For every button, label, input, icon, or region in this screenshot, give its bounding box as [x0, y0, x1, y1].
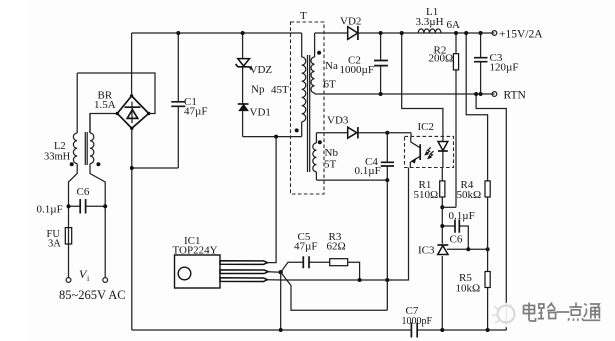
inductor L1: [418, 29, 441, 33]
wire +15V to R4 divider: [466, 33, 487, 181]
svg-text:VD3: VD3: [327, 115, 349, 127]
wire secondary top rail: [315, 32, 495, 34]
optocoupler IC2 dashed box: [405, 136, 454, 167]
resistor R5: [487, 249, 489, 330]
capacitor C5: [303, 256, 309, 268]
resistor R3: [330, 259, 348, 266]
svg-text:3A: 3A: [48, 239, 61, 250]
output terminal RTN: [492, 92, 497, 97]
node L2 dot left: [70, 162, 74, 166]
svg-text:0.1µF: 0.1µF: [355, 165, 381, 177]
node C6 right: [103, 204, 107, 208]
node Np polarity dot: [295, 128, 299, 132]
svg-text:L2: L2: [54, 141, 66, 152]
watermark logo: [492, 303, 517, 328]
svg-text:1.5A: 1.5A: [94, 99, 116, 111]
IC1 pin 2 control lead: [220, 270, 268, 274]
bridge rectifier BR: [116, 94, 151, 130]
svg-text:IC3: IC3: [418, 245, 435, 257]
capacitor C6 (feedback): [442, 226, 468, 249]
output terminal +15V: [492, 31, 497, 36]
opto light arrows: [425, 148, 431, 155]
resistor R2: [455, 33, 457, 207]
IC1 pin 3 source lead: [220, 278, 268, 282]
wire left vertical (bridge+ to top rail, bridge- to bottom rail): [131, 33, 133, 330]
node Nb polarity dot: [318, 140, 322, 144]
wire +15V to opto LED anode: [402, 33, 443, 136]
node control fan: [279, 270, 283, 274]
node source/C4/loop: [385, 278, 389, 282]
transformer core: [308, 55, 310, 172]
capacitor C4: [386, 133, 388, 180]
opto phototransistor: [411, 136, 420, 147]
svg-text:47µF: 47µF: [184, 106, 207, 118]
wire drain to primary: [268, 137, 277, 263]
svg-text:6A: 6A: [447, 19, 461, 31]
IC1 TOP224Y package: [175, 255, 221, 288]
svg-text:Nb: Nb: [325, 147, 339, 159]
node R3/source wire: [358, 278, 362, 282]
node C1 top: [176, 31, 180, 35]
node R5 bottom: [486, 328, 490, 332]
wire bottom rail secondary: [417, 329, 506, 331]
node C3 top: [479, 31, 483, 35]
wire bottom rail primary: [132, 329, 412, 331]
svg-text:VD2: VD2: [340, 16, 361, 28]
wire R2 bottom to node: [442, 206, 456, 208]
node C3 bottom: [479, 92, 483, 96]
node VDZ top: [241, 31, 245, 35]
node RTN loop: [474, 92, 478, 96]
AC terminal left: [66, 278, 71, 283]
node IC3 anode bottom: [440, 328, 444, 332]
capacitor C1: [177, 33, 179, 168]
svg-text:T: T: [300, 10, 307, 22]
svg-text:0.1µF: 0.1µF: [449, 210, 475, 222]
wire Nb bottom to C4: [316, 179, 387, 181]
watermark text 电路一点通: [524, 303, 601, 322]
svg-text:5T: 5T: [324, 159, 337, 171]
wire AC loop top: [77, 73, 155, 114]
capacitor C7: [411, 323, 417, 338]
IC1 pin 1 drain lead: [220, 261, 268, 265]
node C6fb left: [440, 224, 444, 228]
diode VD2: [348, 27, 358, 40]
svg-text:33mH: 33mH: [44, 152, 71, 163]
node LED branch top: [400, 31, 404, 35]
svg-text:Np: Np: [251, 84, 265, 96]
svg-text:200Ω: 200Ω: [429, 53, 454, 65]
capacitor C2: [380, 33, 382, 94]
svg-text:1000pF: 1000pF: [402, 316, 433, 327]
svg-text:0.1µF: 0.1µF: [37, 204, 63, 216]
transformer bias Nb winding: [313, 133, 317, 180]
wire fan straight down to primary ground: [280, 272, 282, 330]
svg-text:62Ω: 62Ω: [327, 241, 346, 253]
node bridge minus / C1: [130, 166, 134, 170]
wire fan diagonal to lower loop: [281, 272, 388, 310]
svg-text:10kΩ: 10kΩ: [456, 283, 481, 295]
wire source pin to right: [268, 168, 409, 281]
svg-text:TOP224Y: TOP224Y: [173, 245, 218, 257]
node R1 bottom / R2: [440, 205, 444, 209]
svg-text:510Ω: 510Ω: [414, 189, 439, 201]
node drain junction: [274, 135, 278, 139]
node VD3/C4: [385, 131, 389, 135]
node C4 bottom: [385, 178, 389, 182]
node C2 top: [379, 31, 383, 35]
svg-text:VD1: VD1: [250, 107, 271, 119]
node L2 dot right: [96, 162, 100, 166]
wire C1 bottom to bridge minus: [132, 167, 179, 169]
fuse FU: [65, 228, 71, 244]
diode VD3: [316, 132, 411, 134]
wire top rail primary: [132, 32, 302, 34]
node R4 branch top: [464, 31, 468, 35]
svg-text:VDZ: VDZ: [250, 64, 273, 76]
svg-text:47µF: 47µF: [294, 241, 317, 253]
svg-text:C6: C6: [77, 186, 90, 198]
svg-text:45T: 45T: [271, 84, 289, 96]
svg-text:1000µF: 1000µF: [340, 64, 374, 76]
wire AC left line: [69, 166, 78, 278]
svg-text:C6: C6: [450, 234, 463, 246]
wire VD3 node to opto collector: [410, 133, 412, 137]
node Na polarity dot: [317, 51, 321, 55]
svg-text:RTN: RTN: [504, 90, 527, 102]
node ref/R4R5: [486, 247, 490, 251]
diode VD1: [238, 103, 249, 105]
node fan ground: [279, 328, 283, 332]
svg-text:IC2: IC2: [418, 121, 435, 133]
wire RTN rail: [315, 93, 495, 95]
wire AC right line: [90, 166, 105, 278]
node ref/C6: [466, 247, 470, 251]
wire C4 node down to source wire: [386, 180, 388, 310]
resistor R4: [485, 181, 490, 197]
wire fan up to C5: [281, 262, 304, 272]
svg-text:6T: 6T: [324, 79, 337, 91]
node C6 left: [67, 204, 71, 208]
wire control pin to fan node: [268, 271, 281, 274]
wire RTN to secondary ground loop: [476, 94, 506, 330]
inductor L2 common-mode choke: [73, 73, 93, 166]
node C2 bottom: [379, 92, 383, 96]
zener VDZ: [242, 33, 244, 104]
opto LED: [442, 136, 444, 167]
svg-text:85~265V AC: 85~265V AC: [59, 288, 126, 302]
node R2 top: [454, 31, 458, 35]
svg-text:120µF: 120µF: [490, 62, 519, 74]
shunt regulator IC3: [437, 244, 448, 246]
capacitor C6 (input X-cap): [69, 205, 106, 207]
wire VD1 to primary bottom: [243, 136, 302, 138]
resistor R1: [441, 168, 443, 244]
svg-text:3.3µH: 3.3µH: [416, 16, 444, 28]
AC terminal right: [103, 278, 108, 283]
transformer T dashed box: [291, 22, 325, 194]
capacitor C3: [480, 33, 482, 94]
transformer primary Np winding: [302, 33, 306, 137]
wire bridge left vertex to L2: [90, 114, 117, 134]
svg-text:Na: Na: [325, 60, 338, 72]
svg-text:50kΩ: 50kΩ: [457, 189, 482, 201]
svg-text:+15V/2A: +15V/2A: [499, 29, 543, 41]
transformer secondary Na winding: [311, 33, 315, 94]
